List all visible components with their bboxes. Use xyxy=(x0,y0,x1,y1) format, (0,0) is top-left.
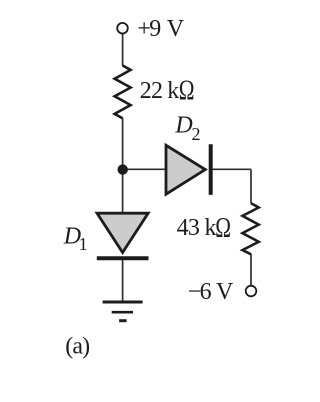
svg-text:22 k: 22 k xyxy=(140,78,179,104)
svg-text:+9V: +9V xyxy=(137,16,184,42)
svg-text:Ω: Ω xyxy=(179,76,195,107)
svg-text:−6V: −6V xyxy=(188,279,234,305)
svg-text:Ω: Ω xyxy=(215,213,231,244)
svg-text:43 k: 43 k xyxy=(177,215,217,241)
svg-text:(a): (a) xyxy=(65,334,89,360)
